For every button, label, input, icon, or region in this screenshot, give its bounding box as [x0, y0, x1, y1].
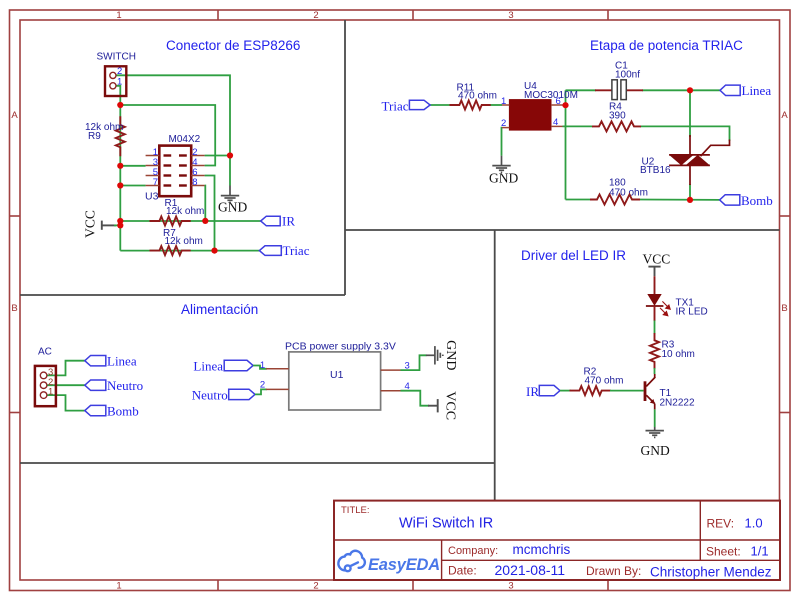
bottom ruler tick 1 [217, 580, 219, 591]
M04X2 pin 1 stub [146, 155, 160, 157]
wire LED cathode lead [654, 306, 656, 321]
ground symbol (ESP section) [221, 186, 239, 203]
svg-text:GND: GND [489, 171, 518, 186]
wire Neutro flag to U1 pin2 [255, 389, 267, 394]
wire Linea flag to U1 pin1 [253, 366, 267, 369]
svg-text:Driver del LED IR: Driver del LED IR [521, 248, 626, 263]
U1 pin 3 stub [381, 369, 401, 371]
wire R2 to T1 base [610, 390, 644, 392]
net flag IR [261, 214, 296, 229]
svg-text:WiFi Switch IR: WiFi Switch IR [399, 516, 493, 532]
wire switch pin1 down to node [116, 86, 120, 105]
wire VCC symbol to rail [114, 224, 120, 226]
SECTION ESP8266 [83, 52, 310, 259]
svg-text:GND: GND [641, 443, 670, 458]
resistor 180 470ohm [590, 195, 640, 205]
junction node pin6/Triac [211, 248, 217, 254]
svg-text:1.0: 1.0 [745, 515, 763, 530]
resistor R1 (horizontal) [150, 217, 191, 226]
svg-text:Alimentación: Alimentación [181, 302, 258, 317]
EasyEDA logo cloud [338, 551, 365, 571]
VCC power symbol (driver) [648, 267, 660, 277]
wire M04X2 pin6 down to Triac net [205, 176, 215, 251]
title block row divider 2 [442, 559, 780, 561]
svg-text:3: 3 [508, 10, 513, 21]
svg-text:2: 2 [117, 66, 122, 77]
svg-text:BTB16: BTB16 [640, 165, 671, 176]
left ruler tick 2 [10, 412, 21, 414]
PSU U1 body [289, 352, 381, 410]
svg-text:TITLE:: TITLE: [341, 505, 370, 516]
svg-text:IR: IR [282, 214, 295, 229]
svg-text:EasyEDA: EasyEDA [368, 556, 440, 574]
top ruler tick 1 [217, 10, 219, 20]
svg-text:PCB power supply 3.3V: PCB power supply 3.3V [285, 341, 396, 353]
wire IR flag to R2 [560, 390, 571, 392]
net flag Neutro (PSU input) [192, 387, 255, 402]
connector AC body [35, 366, 56, 406]
svg-text:Triac: Triac [283, 243, 310, 258]
svg-text:2021-08-11: 2021-08-11 [495, 562, 566, 578]
resistor R7 (horizontal) [150, 246, 191, 255]
capacitor C1 plates [612, 80, 626, 100]
svg-text:1: 1 [260, 360, 265, 371]
junction node pin2/GND [227, 152, 233, 158]
junction node Linea/C1 [687, 87, 693, 93]
svg-text:470 ohm: 470 ohm [458, 91, 497, 102]
M04X2 pin 2 stub [191, 155, 204, 157]
svg-text:1: 1 [117, 76, 122, 87]
svg-text:1/1: 1/1 [751, 543, 769, 558]
wire U1 pin4 to VCC [401, 391, 430, 406]
U4 pin 2 stub [502, 127, 509, 129]
LED TX1 symbol [646, 294, 664, 306]
svg-text:Bomb: Bomb [107, 404, 139, 419]
wire R1 line to IR flag [120, 220, 260, 222]
bottom ruler tick 2 [412, 580, 414, 591]
svg-text:1: 1 [116, 10, 121, 21]
junction node VCC lead [117, 222, 123, 228]
svg-text:1: 1 [501, 96, 506, 107]
net flag Bomb (AC) [85, 404, 139, 419]
resistor R9 (vertical) [116, 116, 125, 156]
wire VCC to LED anode [654, 276, 656, 294]
capacitor C1 leads [595, 89, 643, 91]
VCC power symbol (PSU) [428, 399, 438, 412]
LED emission arrows [660, 301, 670, 315]
wire 180 ohm to Bomb flag [639, 199, 720, 201]
wire 180 ohm line [566, 199, 592, 201]
svg-text:IR: IR [526, 384, 539, 399]
switch pin 1 circle [110, 83, 116, 89]
svg-text:2: 2 [260, 380, 265, 391]
svg-text:Company:: Company: [448, 545, 498, 557]
svg-text:AC: AC [38, 347, 52, 358]
wire R3 to T1 collector [654, 368, 656, 374]
svg-text:Triac: Triac [382, 98, 409, 113]
resistor R3 (vertical) [650, 333, 659, 369]
resistor R2 [570, 386, 611, 395]
svg-text:Sheet:: Sheet: [706, 544, 741, 558]
wire AC pin1 to Bomb flag [47, 395, 85, 411]
M04X2 pin 4 stub [191, 165, 204, 167]
svg-text:12k ohm: 12k ohm [166, 206, 204, 217]
svg-text:8: 8 [192, 177, 197, 188]
resistor R11 [450, 101, 491, 110]
wire node to M04X2 pin3 [120, 165, 145, 167]
title block row divider 1 [334, 539, 780, 541]
svg-text:10 ohm: 10 ohm [662, 349, 695, 360]
svg-text:470 ohm: 470 ohm [585, 375, 624, 386]
svg-text:VCC: VCC [643, 251, 671, 266]
top ruler tick 3 [607, 10, 609, 20]
TITLE BLOCK [334, 501, 780, 580]
svg-text:GND: GND [443, 340, 458, 370]
svg-text:1: 1 [48, 387, 53, 398]
svg-text:GND: GND [218, 200, 247, 215]
svg-text:U1: U1 [330, 369, 344, 381]
divider left edge of LED driver block [494, 230, 496, 501]
title block REV column divider [699, 501, 701, 561]
title block outer border [334, 501, 780, 580]
SECTION TRIAC [382, 61, 773, 208]
AC pin 2 circle [40, 382, 47, 389]
SECTION ALIM [35, 340, 458, 420]
wire U4 pin4 to R4 [563, 125, 594, 127]
svg-text:2: 2 [501, 118, 506, 129]
svg-text:Drawn By:: Drawn By: [586, 564, 641, 578]
junction node R1/VCC [117, 218, 123, 224]
wire R4 to triac gate corner [640, 126, 730, 141]
wire C1 top line [566, 89, 597, 91]
svg-text:Linea: Linea [742, 83, 772, 98]
svg-text:12k ohm: 12k ohm [165, 236, 203, 247]
triac U2 symbol [669, 135, 729, 185]
junction node switch/R9 [117, 102, 123, 108]
divider bottom edge of ESP8266 block [20, 294, 345, 296]
M04X2 pin 6 stub [191, 175, 204, 177]
divider bottom edge of Alimentacion block [20, 462, 495, 464]
net flag IR (driver input) [526, 384, 560, 399]
svg-text:Etapa de potencia TRIAC: Etapa de potencia TRIAC [590, 38, 743, 53]
svg-text:REV:: REV: [707, 516, 735, 530]
svg-text:Linea: Linea [107, 354, 137, 369]
wire C1 to Linea node [642, 89, 690, 91]
M04X2 pin 8 stub [191, 185, 204, 187]
divider bottom edge of TRIAC block [345, 229, 780, 231]
svg-text:Christopher Mendez: Christopher Mendez [650, 564, 772, 579]
AC pin 3 circle [40, 372, 47, 379]
U4 pin 1 stub [502, 104, 509, 106]
svg-text:Neutro: Neutro [107, 378, 143, 393]
net flag Bomb [720, 193, 773, 208]
svg-text:B: B [11, 303, 17, 314]
M04X2 inner pin dashes [164, 156, 187, 186]
wire M04X2 pin2 to GND rail [205, 155, 230, 157]
connector M04X2 body U3 [159, 146, 191, 197]
ground symbol rotated (PSU) [426, 346, 443, 364]
wire U4 pin2 down to GND [501, 128, 504, 156]
M04X2 pin 3 stub [146, 165, 160, 167]
net flag Neutro (AC) [85, 378, 143, 393]
svg-text:M04X2: M04X2 [169, 134, 201, 145]
net flag Triac (output) [259, 243, 309, 258]
svg-text:100nf: 100nf [615, 70, 640, 81]
optocoupler U4 body [509, 100, 551, 131]
svg-text:Date:: Date: [448, 564, 477, 578]
wire R11 to U4 pin1 [489, 104, 502, 106]
right ruler tick 1 [780, 215, 791, 217]
M04X2 pin 7 stub [146, 185, 160, 187]
U4 pin 6 stub [551, 104, 563, 106]
net flag Linea [720, 83, 771, 98]
junction node Bomb [687, 197, 693, 203]
svg-text:2: 2 [313, 10, 318, 21]
svg-text:Bomb: Bomb [741, 193, 773, 208]
U1 pin 1 stub [266, 368, 289, 370]
net flag Linea (AC) [85, 354, 137, 369]
wire switch pin2 to GND rail [116, 75, 230, 185]
ground symbol (driver) [646, 427, 664, 437]
svg-text:7: 7 [153, 177, 158, 188]
wire triac U2 to Bomb node [689, 184, 691, 200]
connector SWITCH body [105, 66, 126, 96]
junction node R9/pin3 [117, 163, 123, 169]
wire node to Linea flag [690, 89, 720, 91]
svg-text:Neutro: Neutro [192, 387, 228, 402]
wire Triac flag to R11 [430, 104, 451, 106]
resistor R4 [592, 121, 641, 131]
right ruler tick 2 [780, 412, 791, 414]
U1 pin 2 stub [266, 388, 289, 390]
wire LED to R3 [654, 321, 656, 335]
AC pin 1 circle [40, 392, 47, 399]
M04X2 pin 5 stub [146, 175, 160, 177]
wire U1 pin3 to GND [401, 355, 427, 370]
svg-text:A: A [781, 110, 788, 121]
svg-text:2N2222: 2N2222 [660, 398, 695, 409]
svg-text:mcmchris: mcmchris [513, 542, 571, 557]
wire node down to triac U2 [689, 90, 691, 137]
left ruler tick 1 [10, 215, 21, 217]
wire AC pin3 to Linea flag [47, 361, 85, 376]
svg-text:Linea: Linea [193, 358, 223, 373]
switch pin 2 circle [110, 72, 116, 78]
svg-text:SWITCH: SWITCH [97, 52, 136, 63]
VCC power symbol [102, 221, 116, 230]
wire U4 pin6 node vertical [565, 90, 567, 199]
wire AC pin2 to Neutro flag [47, 384, 85, 386]
SECTION DIVIDERS [20, 20, 780, 501]
svg-text:A: A [11, 110, 18, 121]
wire node to M04X2 pin7 [120, 185, 145, 187]
wire R7 line to Triac flag [120, 250, 259, 252]
junction node pin7 [117, 182, 123, 188]
svg-text:VCC: VCC [83, 210, 98, 238]
svg-text:VCC: VCC [443, 391, 458, 420]
wire T1 emitter to GND [654, 409, 656, 427]
top ruler tick 2 [412, 10, 414, 20]
SECTION DRIVER [526, 251, 708, 458]
wire node to M04X2 pin4 [120, 105, 215, 166]
ground symbol (TRIAC section) [492, 156, 510, 173]
junction node pin8/IR [202, 218, 208, 224]
wire M04X2 pin8 down to IR net [204, 186, 207, 221]
transistor T1 symbol [645, 374, 655, 409]
net flag Triac (input) [382, 98, 431, 113]
bottom ruler tick 3 [607, 580, 609, 591]
svg-text:6: 6 [556, 96, 561, 107]
wire VCC rail vertical [119, 105, 121, 251]
U1 pin 4 stub [381, 390, 401, 392]
svg-text:IR LED: IR LED [676, 307, 708, 318]
svg-text:R9: R9 [88, 131, 101, 142]
svg-text:3: 3 [508, 581, 513, 592]
title block logo cell divider [441, 540, 443, 580]
svg-text:U3: U3 [145, 191, 159, 203]
net flag Linea (PSU input) [193, 358, 253, 373]
svg-text:1: 1 [116, 581, 121, 592]
svg-text:B: B [781, 303, 787, 314]
svg-text:Conector de ESP8266: Conector de ESP8266 [166, 38, 300, 53]
svg-text:2: 2 [313, 581, 318, 592]
divider right edge of ESP8266 block [344, 20, 346, 295]
svg-text:4: 4 [553, 117, 558, 128]
U4 pin 4 stub [551, 125, 563, 127]
junction node U4 pin6 [562, 102, 568, 108]
